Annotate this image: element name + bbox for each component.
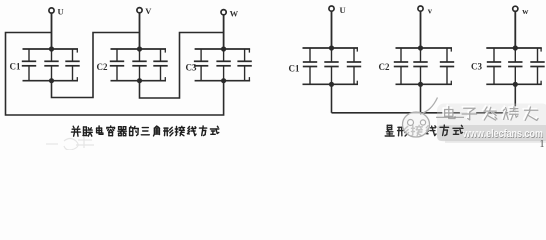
- wire: W lead down to C3 top bus (right): [514, 12, 516, 49]
- caption: 并联电容器的三角形接线方式: [72, 126, 219, 136]
- svg-text:U: U: [58, 7, 64, 17]
- capacitor unit 1 of capacitor bank C1 (left, 3 parallel caps): [22, 49, 36, 81]
- svg-text:U: U: [340, 5, 346, 15]
- caption: 星形接线方式: [385, 125, 463, 136]
- junction node on top bus of capacitor bank C1 (left, 3 parallel caps): [49, 46, 54, 51]
- terminal W (left diagram): [221, 8, 239, 18]
- svg-text:C3: C3: [471, 62, 482, 72]
- capacitor unit 1 of capacitor bank C2 (right, 3 parallel caps): [394, 48, 408, 84]
- wire: top bus of capacitor bank C3 (left, 3 parallel caps): [195, 49, 251, 53]
- wire: top bus of capacitor bank C1 (left, 3 parallel caps): [23, 49, 79, 53]
- wire: W lead down to C3 top bus: [223, 15, 225, 49]
- wire: star neutral link C2 bottom drop: [420, 84, 422, 113]
- capacitor unit 3 of capacitor bank C2 (left, 3 parallel caps): [153, 49, 167, 81]
- capacitor unit 1 of capacitor bank C2 (left, 3 parallel caps): [110, 49, 124, 81]
- junction node on top bus of capacitor bank C2 (left, 3 parallel caps): [137, 46, 142, 51]
- wire: bottom bus of capacitor bank C2 (right, 3 parallel caps): [396, 81, 453, 85]
- capacitor unit 2 of capacitor bank C1 (right, 3 parallel caps): [324, 48, 338, 84]
- terminal U (right diagram): [329, 5, 346, 15]
- junction node on top bus of capacitor bank C1 (right, 3 parallel caps): [329, 45, 334, 50]
- capacitor unit 2 of capacitor bank C1 (left, 3 parallel caps): [44, 49, 58, 81]
- wire: star neutral bus: [332, 112, 516, 114]
- capacitor bank C2 (right, 3 parallel caps): [394, 45, 454, 87]
- watermark text 电子发烧友 (embossed gray outline): [443, 105, 538, 120]
- junction node on top bus of capacitor bank C3 (right, 3 parallel caps): [513, 45, 518, 50]
- junction node on top bus of capacitor bank C3 (left, 3 parallel caps): [221, 46, 226, 51]
- capacitor bank C1 (left, 3 parallel caps): [22, 46, 80, 83]
- wire: delta link C1 bottom -> V line: [52, 33, 140, 98]
- wire: top bus of capacitor bank C2 (left, 3 parallel caps): [111, 49, 167, 53]
- wire: bottom bus of capacitor bank C2 (left, 3 parallel caps): [111, 77, 167, 81]
- svg-text:C2: C2: [379, 62, 390, 72]
- svg-text:C1: C1: [289, 64, 300, 74]
- junction node on bottom bus of capacitor bank C1 (right, 3 parallel caps): [329, 82, 334, 87]
- junction node on top bus of capacitor bank C2 (right, 3 parallel caps): [418, 45, 423, 50]
- wire: bottom bus of capacitor bank C3 (right, 3 parallel caps): [486, 81, 542, 85]
- watermark panel (light gray): [437, 104, 546, 142]
- wire: U lead down to C1 top bus: [51, 13, 53, 49]
- wire: V lead down to C2 top bus (right): [420, 11, 422, 48]
- terminal U (left diagram): [49, 7, 64, 17]
- capacitor unit 2 of capacitor bank C2 (right, 3 parallel caps): [413, 48, 427, 84]
- capacitor unit 3 of capacitor bank C1 (right, 3 parallel caps): [347, 48, 361, 84]
- capacitor unit 2 of capacitor bank C3 (left, 3 parallel caps): [216, 49, 230, 81]
- capacitor unit 1 of capacitor bank C3 (left, 3 parallel caps): [194, 49, 208, 81]
- wire: top bus of capacitor bank C2 (right, 3 parallel caps): [396, 48, 453, 52]
- capacitor unit 1 of capacitor bank C3 (right, 3 parallel caps): [487, 48, 501, 84]
- capacitor unit 1 of capacitor bank C1 (right, 3 parallel caps): [303, 48, 317, 84]
- svg-text:w: w: [522, 6, 529, 16]
- capacitor bank C2 (left, 3 parallel caps): [110, 46, 168, 83]
- capacitor unit 3 of capacitor bank C2 (right, 3 parallel caps): [440, 48, 454, 84]
- capacitor unit 2 of capacitor bank C2 (left, 3 parallel caps): [132, 49, 146, 81]
- junction node on bottom bus of capacitor bank C2 (left, 3 parallel caps): [137, 78, 142, 83]
- terminal V (right diagram): [418, 6, 433, 16]
- wire: delta link C2 bottom -> W line: [140, 33, 224, 99]
- terminal V (left diagram): [137, 6, 152, 16]
- svg-text:C3: C3: [186, 63, 197, 73]
- capacitor unit 3 of capacitor bank C3 (left, 3 parallel caps): [237, 49, 251, 81]
- svg-text:v: v: [428, 6, 433, 16]
- watermark logo swoosh: [403, 98, 438, 138]
- capacitor bank C3 (left, 3 parallel caps): [194, 46, 252, 83]
- wire: bottom bus of capacitor bank C1 (left, 3 parallel caps): [23, 77, 79, 81]
- capacitor unit 3 of capacitor bank C1 (left, 3 parallel caps): [65, 49, 79, 81]
- watermark text www.elecfans.com: [462, 128, 543, 141]
- capacitor bank C1 (right, 3 parallel caps): [303, 45, 362, 87]
- svg-text:C2: C2: [97, 62, 108, 72]
- scan artifact: dark dash through watermark 电子: [436, 116, 464, 118]
- wire: bottom bus of capacitor bank C1 (right, 3 parallel caps): [303, 81, 359, 85]
- junction node on bottom bus of capacitor bank C2 (right, 3 parallel caps): [418, 82, 423, 87]
- terminal W (right diagram): [513, 6, 530, 16]
- junction node on bottom bus of capacitor bank C1 (left, 3 parallel caps): [49, 78, 54, 83]
- wire: top bus of capacitor bank C1 (right, 3 parallel caps): [303, 48, 359, 52]
- wire: star neutral link C3 bottom drop: [514, 84, 516, 113]
- wire: top bus of capacitor bank C3 (right, 3 parallel caps): [486, 48, 542, 52]
- faint ghost watermark (bottom left): [46, 137, 94, 150]
- svg-text:W: W: [230, 8, 239, 18]
- wire: U lead down to C1 top bus (right): [331, 11, 333, 48]
- junction node on bottom bus of capacitor bank C3 (right, 3 parallel caps): [513, 82, 518, 87]
- wire: star neutral link C1 bottom drop: [331, 84, 333, 113]
- wire: bottom bus of capacitor bank C3 (left, 3 parallel caps): [195, 77, 251, 81]
- svg-text:V: V: [145, 6, 152, 16]
- wire: delta link C3 bottom -> outer loop -> U line: [6, 33, 224, 116]
- capacitor unit 3 of capacitor bank C3 (right, 3 parallel caps): [530, 48, 544, 84]
- capacitor unit 2 of capacitor bank C3 (right, 3 parallel caps): [508, 48, 522, 84]
- capacitor bank C3 (right, 3 parallel caps): [486, 45, 544, 87]
- svg-text:1: 1: [540, 139, 545, 150]
- svg-text:www.elecfans.com: www.elecfans.com: [462, 128, 543, 140]
- junction node on bottom bus of capacitor bank C3 (left, 3 parallel caps): [221, 78, 226, 83]
- wire: V lead down to C2 top bus: [139, 13, 141, 49]
- svg-text:C1: C1: [10, 62, 21, 72]
